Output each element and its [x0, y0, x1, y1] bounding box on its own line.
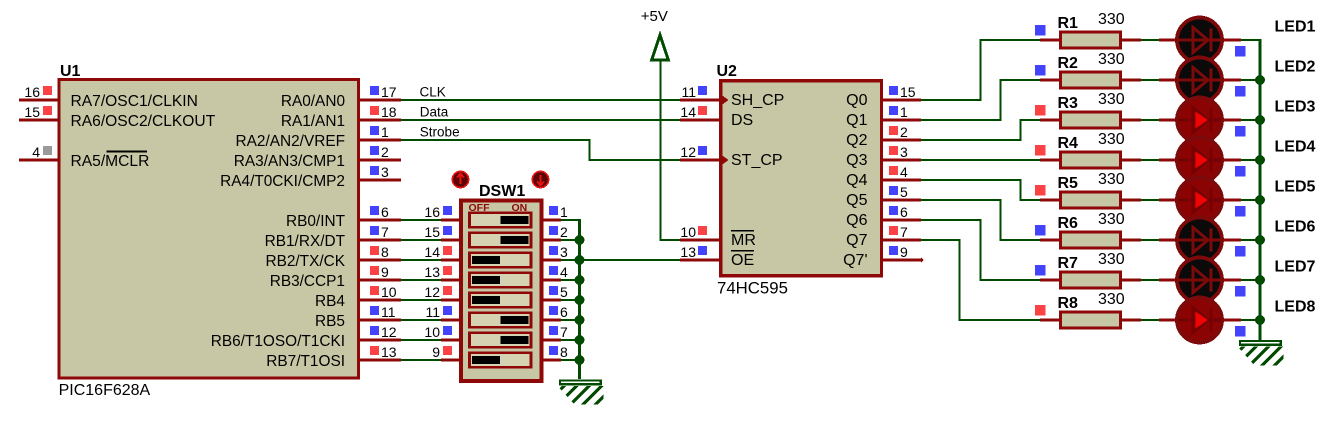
DSW1 switch 8 (OFF)	[470, 353, 532, 367]
resistor R6 (330)	[1035, 211, 1141, 248]
svg-text:330: 330	[1098, 11, 1125, 28]
svg-text:8: 8	[381, 244, 389, 260]
svg-text:6: 6	[560, 304, 568, 320]
svg-text:Q3: Q3	[846, 152, 867, 169]
U1 pin 16 stub	[19, 84, 58, 100]
svg-text:RB0/INT: RB0/INT	[286, 213, 346, 230]
svg-text:330: 330	[1098, 291, 1125, 308]
svg-text:MR: MR	[731, 232, 756, 249]
U1 pin name RA3/AN3/CMP1	[234, 153, 345, 170]
wire Q5 to R6	[921, 199, 1040, 241]
LED8 (on)	[1159, 298, 1246, 343]
wire RB6 to DSW1	[401, 339, 441, 341]
LED1 reference label	[1275, 19, 1316, 36]
U1 pin 10 stub	[360, 284, 401, 300]
U2 pin 11 stub	[680, 84, 721, 100]
U1 pin name RB1/RX/DT	[265, 233, 346, 250]
wire R5 to LED5	[1141, 199, 1160, 201]
wire RB2 to DSW1	[401, 259, 441, 261]
svg-text:Strobe: Strobe	[420, 125, 460, 140]
svg-text:OE: OE	[731, 252, 754, 269]
wire CLK net RA0 to SH_CP	[401, 99, 680, 101]
svg-text:14: 14	[680, 104, 696, 120]
LED4 reference label	[1275, 139, 1316, 156]
svg-text:R2: R2	[1058, 55, 1079, 72]
U1 pin 2 stub	[360, 144, 401, 160]
LED1 (off)	[1159, 18, 1246, 63]
wire DSW bus to U2 OE	[580, 259, 680, 261]
wire RB5 to DSW1	[401, 319, 441, 321]
wire RB7 to DSW1	[401, 359, 441, 361]
wire Data net RA1 to DS	[401, 119, 680, 121]
svg-text:R1: R1	[1058, 15, 1079, 32]
svg-text:DSW1: DSW1	[479, 183, 525, 200]
wire LED5 cathode to bus	[1241, 199, 1261, 201]
svg-text:4: 4	[32, 144, 40, 160]
svg-text:11: 11	[681, 84, 696, 100]
svg-text:SH_CP: SH_CP	[731, 92, 784, 109]
DSW1 pin 5 stub	[542, 284, 568, 300]
svg-text:Q1: Q1	[846, 112, 867, 129]
svg-text:16: 16	[424, 204, 440, 220]
svg-text:9: 9	[381, 264, 389, 280]
LED3 (on)	[1159, 98, 1246, 143]
svg-text:16: 16	[24, 84, 40, 100]
svg-text:5: 5	[560, 284, 568, 300]
U2 pin name Q5	[846, 192, 867, 209]
DSW1 OFF header	[469, 202, 491, 214]
U2 pin name Q0	[846, 92, 867, 109]
DSW1 switch 6 (ON)	[470, 313, 532, 327]
svg-text:RB7/T1OSI: RB7/T1OSI	[266, 353, 345, 370]
svg-text:330: 330	[1098, 131, 1125, 148]
DSW1 pin 1 stub	[542, 204, 568, 220]
DSW1 pin 11 stub	[425, 304, 460, 320]
net label CLK	[420, 85, 446, 100]
svg-text:7: 7	[560, 324, 568, 340]
svg-text:RA2/AN2/VREF: RA2/AN2/VREF	[236, 133, 345, 150]
U1 pin name RB7/T1OSI	[266, 353, 345, 370]
junction dot LED bus row 160	[1255, 155, 1265, 165]
wire R3 to LED3	[1141, 119, 1160, 121]
junction dot LED bus row 80	[1255, 75, 1265, 85]
U1 pin 18 stub	[360, 104, 401, 120]
LED7 (off)	[1159, 258, 1246, 303]
svg-text:U2: U2	[717, 63, 738, 80]
wire RB4 to DSW1	[401, 299, 441, 301]
U1 pin name RB0/INT	[286, 213, 346, 230]
DSW1 pin 9 stub	[432, 344, 460, 360]
U2 pin 10 stub	[680, 224, 721, 240]
svg-text:RA6/OSC2/CLKOUT: RA6/OSC2/CLKOUT	[71, 113, 216, 130]
svg-text:RA1/AN1: RA1/AN1	[281, 113, 345, 130]
wire R8 to LED8	[1141, 319, 1160, 321]
svg-text:RA4/T0CKI/CMP2: RA4/T0CKI/CMP2	[220, 173, 345, 190]
svg-text:6: 6	[381, 204, 389, 220]
svg-text:R6: R6	[1058, 215, 1079, 232]
svg-text:7: 7	[900, 224, 908, 240]
svg-text:3: 3	[381, 164, 389, 180]
svg-text:330: 330	[1098, 171, 1125, 188]
net label Data	[420, 105, 449, 120]
svg-text:RB4: RB4	[315, 293, 345, 310]
U1 pin name RB5	[315, 313, 345, 330]
svg-text:LED4: LED4	[1275, 139, 1316, 156]
junction dot LED bus row 200	[1255, 195, 1265, 205]
svg-text:LED6: LED6	[1275, 219, 1316, 236]
svg-text:+5V: +5V	[641, 8, 668, 25]
svg-text:2: 2	[560, 224, 568, 240]
DSW1 switch 3 (OFF)	[470, 253, 532, 267]
resistor R3 (330)	[1035, 91, 1141, 128]
wire DSW1 pin 1 to ground bus	[561, 219, 581, 221]
svg-text:330: 330	[1098, 91, 1125, 108]
wire DSW1 pin 8 to ground bus	[561, 359, 581, 361]
U1 pin 15 stub	[19, 104, 58, 120]
wire R4 to LED4	[1141, 159, 1160, 161]
resistor R8 (330)	[1035, 291, 1141, 328]
LED cathode ground bus vertical wire	[1259, 39, 1262, 341]
U2 reference label	[717, 63, 738, 80]
svg-text:8: 8	[560, 344, 568, 360]
+5V power arrow symbol	[652, 35, 669, 60]
svg-text:Data: Data	[420, 105, 449, 120]
wire Q3 to R4	[921, 159, 1040, 161]
svg-text:R4: R4	[1058, 135, 1079, 152]
junction dot DSW bus row 260	[575, 255, 585, 265]
U2 pin name Q2	[846, 132, 867, 149]
DSW1 pin 10 stub	[424, 324, 460, 340]
svg-text:RA3/AN3/CMP1: RA3/AN3/CMP1	[234, 153, 345, 170]
svg-text:Q2: Q2	[846, 132, 867, 149]
U1 pin 12 stub	[360, 324, 401, 340]
wire DSW1 pin 3 to ground bus	[561, 259, 581, 261]
svg-text:5: 5	[900, 184, 908, 200]
svg-text:RA5/MCLR: RA5/MCLR	[71, 153, 150, 170]
svg-text:7: 7	[381, 224, 389, 240]
junction dot DSW bus row 360	[575, 355, 585, 365]
wire Q0 to R1	[921, 39, 1040, 101]
U2 pin name ST_CP	[731, 152, 783, 169]
svg-text:3: 3	[560, 244, 568, 260]
wire DSW1 pin 7 to ground bus	[561, 339, 581, 341]
svg-text:12: 12	[381, 324, 397, 340]
svg-text:R3: R3	[1058, 95, 1079, 112]
U1 pin 1 stub	[360, 124, 401, 140]
DSW1 switch 7 (ON)	[470, 333, 532, 347]
DSW1 reference label	[479, 183, 525, 200]
DSW1 pin 2 stub	[542, 224, 568, 240]
U1 pin name RA2/AN2/VREF	[236, 133, 345, 150]
svg-text:13: 13	[680, 244, 696, 260]
DSW1 ON header	[512, 202, 528, 214]
U1 pin name RB2/TX/CK	[265, 253, 345, 270]
junction dot LED bus row 320	[1255, 315, 1265, 325]
svg-text:CLK: CLK	[420, 85, 446, 100]
svg-text:6: 6	[900, 204, 908, 220]
svg-text:330: 330	[1098, 51, 1125, 68]
junction dot DSW bus row 240	[575, 235, 585, 245]
U1 pin name RA6/OSC2/CLKOUT	[71, 113, 216, 130]
DSW1 pin 16 stub	[424, 204, 460, 220]
U1 pin 7 stub	[360, 224, 401, 240]
wire RB3 to DSW1	[401, 279, 441, 281]
svg-text:18: 18	[381, 104, 397, 120]
svg-text:10: 10	[381, 284, 397, 300]
svg-text:Q5: Q5	[846, 192, 867, 209]
svg-text:3: 3	[900, 144, 908, 160]
wire RB1 to DSW1	[401, 239, 441, 241]
junction dot DSW bus row 280	[575, 275, 585, 285]
U2 pin name MR	[731, 231, 756, 249]
svg-text:LED2: LED2	[1275, 59, 1316, 76]
svg-text:R5: R5	[1058, 175, 1079, 192]
+5V power label	[641, 8, 668, 25]
U2 pin name OE	[731, 251, 754, 269]
resistor R7 (330)	[1035, 251, 1141, 288]
resistor R2 (330)	[1035, 51, 1141, 88]
U1 pin 11 stub	[360, 304, 401, 320]
svg-text:RA0/AN0: RA0/AN0	[281, 93, 345, 110]
svg-text:DS: DS	[731, 112, 753, 129]
DSW1 pin 3 stub	[542, 244, 568, 260]
U2 pin name DS	[731, 112, 753, 129]
DSW1 ground bus vertical wire	[578, 219, 581, 379]
U2 pin name Q3	[846, 152, 867, 169]
ground symbol below DSW1	[530, 370, 630, 420]
wire Q4 to R5	[921, 179, 1040, 201]
wire DSW1 pin 4 to ground bus	[561, 279, 581, 281]
DSW1 pin 13 stub	[424, 264, 460, 280]
svg-text:R7: R7	[1058, 255, 1079, 272]
DSW1 dip-switch body	[461, 200, 541, 380]
svg-text:RB6/T1OSO/T1CKI: RB6/T1OSO/T1CKI	[211, 333, 345, 350]
junction dot LED bus row 120	[1255, 115, 1265, 125]
DSW1 pin 14 stub	[424, 244, 460, 260]
U1 pin name RA0/AN0	[281, 93, 345, 110]
svg-text:R8: R8	[1058, 295, 1079, 312]
op-amp-style part body U1 (PIC16F628A)	[59, 80, 358, 378]
U2 clock triangle SH_CP	[721, 95, 729, 106]
U2 value label 74HC595	[717, 279, 788, 298]
svg-text:LED3: LED3	[1275, 99, 1316, 116]
wire LED8 cathode to bus	[1241, 319, 1261, 321]
wire LED4 cathode to bus	[1241, 159, 1261, 161]
U1 pin 13 stub	[360, 344, 401, 360]
wire Q1 to R2	[921, 79, 1040, 121]
U2 shift register body (74HC595)	[721, 81, 882, 276]
U2 pin 13 stub	[680, 244, 721, 260]
svg-text:LED1: LED1	[1275, 19, 1316, 36]
svg-text:15: 15	[900, 84, 916, 100]
svg-text:Q0: Q0	[846, 92, 867, 109]
U2 pin name Q4	[846, 172, 867, 189]
wire R1 to LED1	[1141, 39, 1160, 41]
LED4 (on)	[1159, 138, 1246, 183]
U2 pin 1 stub	[881, 104, 921, 120]
svg-text:Q7: Q7	[846, 232, 867, 249]
U1 pin name RB3/CCP1	[270, 273, 345, 290]
DSW1 switch 2 (ON)	[470, 233, 532, 247]
svg-text:12: 12	[424, 284, 440, 300]
svg-text:1: 1	[560, 204, 568, 220]
U2 pin name Q7'	[843, 252, 867, 269]
U2 pin 7 stub	[881, 224, 921, 240]
U1 pin 17 stub	[360, 84, 401, 100]
wire R6 to LED6	[1141, 239, 1160, 241]
U2 clock triangle ST_CP	[721, 155, 729, 166]
U2 pin 14 stub	[680, 104, 721, 120]
DSW1 switch 5 (OFF)	[470, 293, 532, 307]
svg-text:15: 15	[24, 104, 40, 120]
U2 pin 4 stub	[881, 164, 921, 180]
wire LED7 cathode to bus	[1241, 279, 1261, 281]
wire DSW1 pin 5 to ground bus	[561, 299, 581, 301]
U1 pin name RA1/AN1	[281, 113, 345, 130]
U2 pin name SH_CP	[731, 92, 784, 109]
svg-text:11: 11	[425, 304, 440, 320]
U1 pin name RB6/T1OSO/T1CKI	[211, 333, 345, 350]
LED2 (off)	[1159, 58, 1246, 103]
svg-text:13: 13	[381, 344, 397, 360]
resistor R4 (330)	[1035, 131, 1141, 168]
ground symbol below LED bus	[1210, 330, 1310, 380]
DSW1 switch 4 (OFF)	[470, 273, 532, 287]
svg-text:2: 2	[900, 124, 908, 140]
DSW1 pin 6 stub	[542, 304, 568, 320]
junction dot LED bus row 240	[1255, 235, 1265, 245]
wire R2 to LED2	[1141, 79, 1160, 81]
DSW1 pin 12 stub	[424, 284, 460, 300]
U1 pin 4 stub	[19, 144, 58, 160]
LED6 reference label	[1275, 219, 1316, 236]
wire DSW1 pin 2 to ground bus	[561, 239, 581, 241]
DSW1 pin 7 stub	[542, 324, 568, 340]
U2 pin 2 stub	[881, 124, 921, 140]
wire Q6 to R7	[921, 219, 1040, 281]
svg-text:Q7': Q7'	[843, 252, 867, 269]
U1 reference label	[60, 63, 81, 80]
svg-text:2: 2	[381, 144, 389, 160]
svg-text:PIC16F628A: PIC16F628A	[59, 382, 151, 399]
svg-text:9: 9	[900, 244, 908, 260]
junction dot DSW bus row 320	[575, 315, 585, 325]
LED5 (on)	[1159, 178, 1246, 223]
U1 pin name RA5/MCLR	[71, 152, 150, 171]
svg-text:330: 330	[1098, 211, 1125, 228]
DSW1 switch 1 (ON)	[470, 213, 532, 227]
DSW1 interactive screw (down arrow)	[532, 171, 548, 187]
svg-text:LED8: LED8	[1275, 299, 1316, 316]
U2 pin 3 stub	[881, 144, 921, 160]
U2 pin name Q6	[846, 212, 867, 229]
junction dot DSW bus row 340	[575, 335, 585, 345]
U2 pin 15 stub	[881, 84, 921, 100]
svg-text:14: 14	[424, 244, 440, 260]
U2 pin 6 stub	[881, 204, 921, 220]
svg-text:RB1/RX/DT: RB1/RX/DT	[265, 233, 346, 250]
svg-text:RB3/CCP1: RB3/CCP1	[270, 273, 345, 290]
svg-text:330: 330	[1098, 251, 1125, 268]
svg-text:Q4: Q4	[846, 172, 867, 189]
DSW1 pin 15 stub	[424, 224, 460, 240]
svg-text:LED5: LED5	[1275, 179, 1316, 196]
svg-text:11: 11	[381, 304, 396, 320]
svg-text:4: 4	[900, 164, 908, 180]
svg-text:RB5: RB5	[315, 313, 345, 330]
U2 pin 9 stub	[881, 244, 924, 263]
wire LED2 cathode to bus	[1241, 79, 1261, 81]
LED7 reference label	[1275, 259, 1316, 276]
wire LED1 cathode to bus	[1241, 39, 1261, 41]
U1 pin name RB4	[315, 293, 345, 310]
svg-text:RA7/OSC1/CLKIN: RA7/OSC1/CLKIN	[71, 93, 198, 110]
svg-text:10: 10	[680, 224, 696, 240]
svg-text:1: 1	[381, 124, 389, 140]
svg-text:12: 12	[680, 144, 696, 160]
junction dot LED bus row 280	[1255, 275, 1265, 285]
LED6 (off)	[1159, 218, 1246, 263]
wire Strobe net RA2 to ST_CP	[401, 139, 680, 161]
wire Q7 to R8	[921, 239, 1040, 321]
svg-text:RB2/TX/CK: RB2/TX/CK	[265, 253, 345, 270]
svg-text:13: 13	[424, 264, 440, 280]
U1 pin 6 stub	[360, 204, 401, 220]
LED2 reference label	[1275, 59, 1316, 76]
svg-text:10: 10	[424, 324, 440, 340]
DSW1 pin 4 stub	[542, 264, 568, 280]
wire +5V to U2 MR	[660, 60, 681, 241]
svg-text:1: 1	[900, 104, 908, 120]
svg-text:15: 15	[424, 224, 440, 240]
U1 pin 8 stub	[360, 244, 401, 260]
svg-text:ST_CP: ST_CP	[731, 152, 783, 169]
U1 pin 9 stub	[360, 264, 401, 280]
wire LED6 cathode to bus	[1241, 239, 1261, 241]
svg-text:U1: U1	[60, 63, 81, 80]
U2 pin name Q1	[846, 112, 867, 129]
wire Q2 to R3	[921, 119, 1040, 141]
U1 pin name RA4/T0CKI/CMP2	[220, 173, 345, 190]
U2 pin 12 stub	[680, 144, 721, 160]
U2 pin name Q7	[846, 232, 867, 249]
svg-text:Q6: Q6	[846, 212, 867, 229]
svg-text:9: 9	[432, 344, 440, 360]
wire DSW1 pin 6 to ground bus	[561, 319, 581, 321]
DSW1 pin 8 stub	[542, 344, 568, 360]
U1 pin 3 stub	[360, 164, 401, 180]
U2 pin 5 stub	[881, 184, 921, 200]
resistor R5 (330)	[1035, 171, 1141, 208]
svg-text:74HC595: 74HC595	[717, 279, 788, 298]
LED8 reference label	[1275, 299, 1316, 316]
U1 pin name RA7/OSC1/CLKIN	[71, 93, 198, 110]
resistor R1 (330)	[1035, 11, 1141, 48]
svg-text:4: 4	[560, 264, 568, 280]
LED3 reference label	[1275, 99, 1316, 116]
LED5 reference label	[1275, 179, 1316, 196]
svg-text:LED7: LED7	[1275, 259, 1316, 276]
wire LED3 cathode to bus	[1241, 119, 1261, 121]
net label Strobe	[420, 125, 460, 140]
junction dot DSW bus row 300	[575, 295, 585, 305]
U1 value label PIC16F628A	[59, 382, 151, 399]
svg-text:17: 17	[381, 84, 397, 100]
DSW1 interactive screw (up arrow)	[452, 171, 468, 187]
wire RB0 to DSW1	[401, 219, 441, 221]
wire R7 to LED7	[1141, 279, 1160, 281]
